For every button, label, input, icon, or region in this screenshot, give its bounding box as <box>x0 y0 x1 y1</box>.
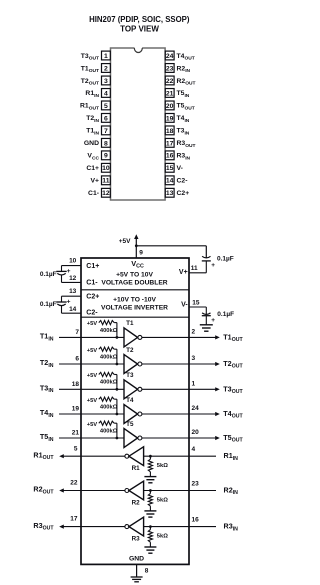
wire R2 input <box>144 490 189 492</box>
wire R1 input <box>144 455 189 457</box>
package notch <box>135 47 143 49</box>
pin 18 box (T3IN) <box>165 126 174 135</box>
svg-text:C1+: C1+ <box>86 165 99 172</box>
divider inverter/drivers <box>81 316 189 318</box>
svg-text:T4: T4 <box>126 397 134 404</box>
svg-text:14: 14 <box>69 306 77 313</box>
wire inside to driver T1 <box>81 336 124 338</box>
svg-text:C1-: C1- <box>88 190 99 197</box>
svg-text:GND: GND <box>84 140 99 147</box>
wire R1OUT output <box>63 455 81 457</box>
pin 8 box (GND) <box>102 138 111 147</box>
capacitor 0.1uF at V+ <box>202 256 210 258</box>
svg-text:15: 15 <box>166 165 174 172</box>
svg-text:T5OUT: T5OUT <box>223 433 243 444</box>
svg-text:7: 7 <box>75 329 79 336</box>
svg-text:13: 13 <box>166 190 174 197</box>
svg-text:T5: T5 <box>126 421 134 428</box>
svg-text:18: 18 <box>72 381 80 388</box>
svg-text:+5V: +5V <box>87 422 98 428</box>
svg-text:400kΩ: 400kΩ <box>100 328 118 334</box>
pin 23 box (R2IN) <box>165 64 174 73</box>
svg-text:3: 3 <box>192 355 196 362</box>
ground at R3 5k <box>144 547 156 553</box>
node: +5V junction <box>135 244 138 247</box>
svg-text:8: 8 <box>145 568 149 575</box>
wire R2OUT output <box>63 490 81 492</box>
node junction R3 input / 5k <box>149 525 152 528</box>
wire inside to driver T5 <box>81 437 124 439</box>
svg-text:+10V TO -10V: +10V TO -10V <box>113 297 156 304</box>
pin 2 box (T1OUT) <box>102 64 111 73</box>
svg-text:+5V TO 10V: +5V TO 10V <box>116 271 153 278</box>
svg-text:R1: R1 <box>132 465 141 472</box>
wire inside to driver T3 <box>81 388 124 390</box>
svg-text:+: + <box>67 298 71 305</box>
divider doubler/inverter <box>81 289 189 291</box>
svg-text:11: 11 <box>191 265 198 272</box>
resistor 5k of R2 <box>149 491 151 494</box>
wire +5V to VCC pin 9 <box>135 246 137 258</box>
svg-text:22: 22 <box>166 78 174 85</box>
svg-text:+: + <box>211 262 215 269</box>
svg-text:6: 6 <box>75 356 79 363</box>
wire pin 14 <box>62 312 82 314</box>
svg-text:14: 14 <box>166 178 174 185</box>
resistor 5k of R1 <box>149 456 151 459</box>
svg-text:T1OUT: T1OUT <box>81 65 99 74</box>
svg-text:C2-: C2- <box>177 178 188 185</box>
pin 19 box (T4IN) <box>165 114 174 123</box>
svg-text:T5IN: T5IN <box>40 432 54 443</box>
svg-text:R3IN: R3IN <box>177 153 191 162</box>
resistor 400k of T1 <box>99 321 114 325</box>
svg-text:R2: R2 <box>132 499 141 506</box>
svg-text:T3IN: T3IN <box>177 128 190 137</box>
svg-text:9: 9 <box>139 249 143 256</box>
svg-text:T4OUT: T4OUT <box>177 53 195 62</box>
svg-text:6: 6 <box>104 115 108 122</box>
svg-text:T3IN: T3IN <box>40 384 54 395</box>
node junction resistor/T4 input <box>116 413 119 416</box>
svg-text:GND: GND <box>129 555 144 562</box>
svg-text:+5V: +5V <box>87 348 98 354</box>
svg-text:8: 8 <box>104 140 108 147</box>
svg-text:7: 7 <box>104 128 108 135</box>
svg-text:5kΩ: 5kΩ <box>157 498 168 504</box>
ground at V- cap <box>200 325 213 331</box>
svg-text:24: 24 <box>166 53 174 60</box>
svg-text:T1IN: T1IN <box>40 332 54 343</box>
pin 17 box (R3OUT) <box>165 138 174 147</box>
svg-text:T1IN: T1IN <box>86 128 99 137</box>
svg-text:T2IN: T2IN <box>40 358 54 369</box>
pin 24 box (T4OUT) <box>165 51 174 60</box>
resistor 5k of R3 <box>149 527 151 530</box>
svg-text:R1OUT: R1OUT <box>80 103 99 112</box>
resistor 400k of T2 <box>99 347 114 351</box>
svg-text:17: 17 <box>166 140 174 147</box>
pin 6 box (T2IN) <box>102 114 111 123</box>
wire T3 output <box>142 388 189 390</box>
receiver R1 <box>125 454 129 458</box>
svg-text:+5V: +5V <box>119 238 131 245</box>
svg-text:400kΩ: 400kΩ <box>100 428 118 434</box>
capacitor 0.1uF <box>61 266 63 272</box>
svg-text:C2-: C2- <box>86 310 98 317</box>
ground at R1 5k <box>144 477 156 483</box>
receiver R2 <box>125 489 129 493</box>
capacitor 0.1uF <box>61 296 63 302</box>
wire pin 12 <box>62 281 82 283</box>
svg-text:2: 2 <box>104 65 108 72</box>
svg-text:1: 1 <box>104 53 108 60</box>
svg-text:V+: V+ <box>90 178 99 185</box>
ground at GND pin 8 <box>131 577 143 582</box>
svg-text:C2+: C2+ <box>86 293 99 300</box>
svg-text:400kΩ: 400kΩ <box>100 380 118 386</box>
svg-text:R2OUT: R2OUT <box>177 78 196 87</box>
svg-text:R3IN: R3IN <box>224 522 239 533</box>
svg-text:R3OUT: R3OUT <box>177 140 196 149</box>
svg-text:R3: R3 <box>132 536 141 543</box>
svg-text:21: 21 <box>166 90 174 97</box>
node junction resistor/T1 input <box>116 336 119 339</box>
wire bubble to block edge <box>81 455 125 457</box>
wire GND pin 8 <box>136 564 138 576</box>
receiver R3 <box>125 525 129 529</box>
svg-text:V-: V- <box>181 301 188 308</box>
resistor 400k of T3 <box>99 372 114 376</box>
pin 10 box (C1+) <box>102 163 111 172</box>
wire pin 10 <box>62 265 82 267</box>
svg-text:T4OUT: T4OUT <box>223 409 243 420</box>
svg-text:T2OUT: T2OUT <box>81 78 99 87</box>
svg-text:TOP VIEW: TOP VIEW <box>120 25 159 34</box>
svg-text:19: 19 <box>72 406 80 413</box>
svg-text:T5IN: T5IN <box>177 90 190 99</box>
functional block outline U1 <box>81 258 189 564</box>
svg-text:VOLTAGE DOUBLER: VOLTAGE DOUBLER <box>101 279 167 286</box>
svg-text:R2OUT: R2OUT <box>33 485 54 496</box>
svg-text:22: 22 <box>70 480 78 487</box>
svg-text:R1IN: R1IN <box>224 451 239 462</box>
svg-text:T2OUT: T2OUT <box>223 359 243 370</box>
svg-text:VCC: VCC <box>131 259 144 270</box>
svg-text:4: 4 <box>192 446 196 453</box>
pin 7 box (T1IN) <box>102 126 111 135</box>
svg-text:3: 3 <box>104 78 108 85</box>
svg-text:R1OUT: R1OUT <box>33 450 54 461</box>
pin 1 box (T3OUT) <box>102 51 111 60</box>
pin 20 box (T5OUT) <box>165 101 174 110</box>
wire T2 output <box>142 363 189 365</box>
svg-text:C1-: C1- <box>86 280 98 287</box>
svg-text:+5V: +5V <box>87 321 98 327</box>
wire inside to driver T2 <box>81 363 124 365</box>
wire T3IN input <box>59 388 81 390</box>
pin 21 box (T5IN) <box>165 89 174 98</box>
node junction resistor/T3 input <box>116 388 119 391</box>
svg-text:T3OUT: T3OUT <box>223 384 243 395</box>
wire R1IN right <box>189 455 216 457</box>
node junction R1 input / 5k <box>149 455 152 458</box>
pin 4 box (R1IN) <box>102 89 111 98</box>
svg-text:400kΩ: 400kΩ <box>100 354 118 360</box>
svg-text:V+: V+ <box>179 269 188 276</box>
wire pin 13 <box>62 295 82 297</box>
svg-text:24: 24 <box>192 405 200 412</box>
svg-text:11: 11 <box>102 178 109 185</box>
pin 11 box (V+) <box>102 176 111 185</box>
pin 22 box (R2OUT) <box>165 76 174 85</box>
wire T5IN input <box>59 437 81 439</box>
svg-text:VCC: VCC <box>87 153 99 162</box>
svg-text:0.1µF: 0.1µF <box>217 311 234 318</box>
svg-text:12: 12 <box>102 190 110 197</box>
pin 13 box (C2+) <box>165 188 174 197</box>
svg-text:20: 20 <box>192 429 200 436</box>
svg-text:9: 9 <box>104 153 108 160</box>
resistor 400k of T4 <box>99 397 114 401</box>
svg-text:0.1µF: 0.1µF <box>217 255 234 262</box>
svg-text:10: 10 <box>102 165 110 172</box>
svg-text:16: 16 <box>166 153 174 160</box>
wire bubble to block edge <box>81 490 125 492</box>
wire T1IN input <box>59 336 81 338</box>
svg-text:T2IN: T2IN <box>86 115 99 124</box>
svg-text:400kΩ: 400kΩ <box>100 404 118 410</box>
wire inside to driver T4 <box>81 413 124 415</box>
svg-text:C2+: C2+ <box>177 190 190 197</box>
pin 14 box (C2-) <box>165 176 174 185</box>
svg-text:R2IN: R2IN <box>224 486 239 497</box>
svg-text:+: + <box>211 317 215 324</box>
ground at R2 5k <box>144 511 156 517</box>
wire T5 output <box>142 437 189 439</box>
svg-text:T4IN: T4IN <box>40 408 54 419</box>
svg-text:T3: T3 <box>126 372 134 379</box>
pin 15 box (V-) <box>165 163 174 172</box>
svg-text:5kΩ: 5kΩ <box>157 463 168 469</box>
IC package body <box>111 48 166 200</box>
node junction resistor/T2 input <box>116 363 119 366</box>
wire R2IN right <box>189 490 216 492</box>
resistor 400k of T5 <box>99 421 114 425</box>
svg-text:+: + <box>67 268 71 275</box>
svg-text:T4IN: T4IN <box>177 115 190 124</box>
svg-text:19: 19 <box>166 115 174 122</box>
svg-text:12: 12 <box>69 275 77 282</box>
svg-text:+5V: +5V <box>87 373 98 379</box>
wire T1 output <box>142 336 189 338</box>
svg-text:15: 15 <box>192 300 200 307</box>
node junction R2 input / 5k <box>149 489 152 492</box>
wire T4IN input <box>59 413 81 415</box>
svg-text:20: 20 <box>166 103 174 110</box>
wire V- pin 15 <box>189 306 206 308</box>
svg-text:10: 10 <box>69 257 77 264</box>
svg-text:T1OUT: T1OUT <box>223 332 243 343</box>
svg-text:1: 1 <box>192 381 196 388</box>
wire R3 input <box>144 526 189 528</box>
wire +5V rail to right cap <box>136 245 206 247</box>
svg-text:5kΩ: 5kΩ <box>157 534 168 540</box>
node junction resistor/T5 input <box>116 437 119 440</box>
svg-text:C1+: C1+ <box>86 263 99 270</box>
svg-text:23: 23 <box>166 65 174 72</box>
wire R3IN right <box>189 526 216 528</box>
svg-text:R3OUT: R3OUT <box>33 521 54 532</box>
svg-text:16: 16 <box>192 517 200 524</box>
svg-text:VOLTAGE INVERTER: VOLTAGE INVERTER <box>101 304 168 311</box>
svg-text:T5OUT: T5OUT <box>177 103 195 112</box>
pin 9 box (VCC) <box>102 151 111 160</box>
wire R3OUT output <box>63 526 81 528</box>
wire bubble to block edge <box>81 526 125 528</box>
svg-text:+5V: +5V <box>87 398 98 404</box>
svg-text:T2: T2 <box>126 347 134 354</box>
pin 16 box (R3IN) <box>165 151 174 160</box>
svg-text:0.1µF: 0.1µF <box>40 301 57 308</box>
svg-text:23: 23 <box>192 481 200 488</box>
svg-text:5: 5 <box>104 103 108 110</box>
svg-text:R2IN: R2IN <box>177 65 191 74</box>
pin 12 box (C1-) <box>102 188 111 197</box>
wire T4 output <box>142 413 189 415</box>
svg-text:21: 21 <box>72 430 80 437</box>
svg-text:V-: V- <box>177 165 183 172</box>
svg-text:T3OUT: T3OUT <box>81 53 99 62</box>
svg-text:T1: T1 <box>126 320 134 327</box>
+5V supply arrow <box>135 239 137 246</box>
pin 5 box (R1OUT) <box>102 101 111 110</box>
svg-text:18: 18 <box>166 128 174 135</box>
svg-text:2: 2 <box>192 329 196 336</box>
wire V+ pin 11 <box>189 272 206 274</box>
svg-text:17: 17 <box>70 516 78 523</box>
svg-text:13: 13 <box>69 288 77 295</box>
wire T2IN input <box>59 363 81 365</box>
pin 3 box (T2OUT) <box>102 76 111 85</box>
capacitor 0.1uF at V- <box>202 313 210 315</box>
svg-text:0.1µF: 0.1µF <box>40 271 57 278</box>
svg-text:R1IN: R1IN <box>85 90 99 99</box>
svg-text:4: 4 <box>104 90 108 97</box>
svg-text:HIN207 (PDIP, SOIC, SSOP): HIN207 (PDIP, SOIC, SSOP) <box>89 15 190 24</box>
svg-text:5: 5 <box>74 445 78 452</box>
